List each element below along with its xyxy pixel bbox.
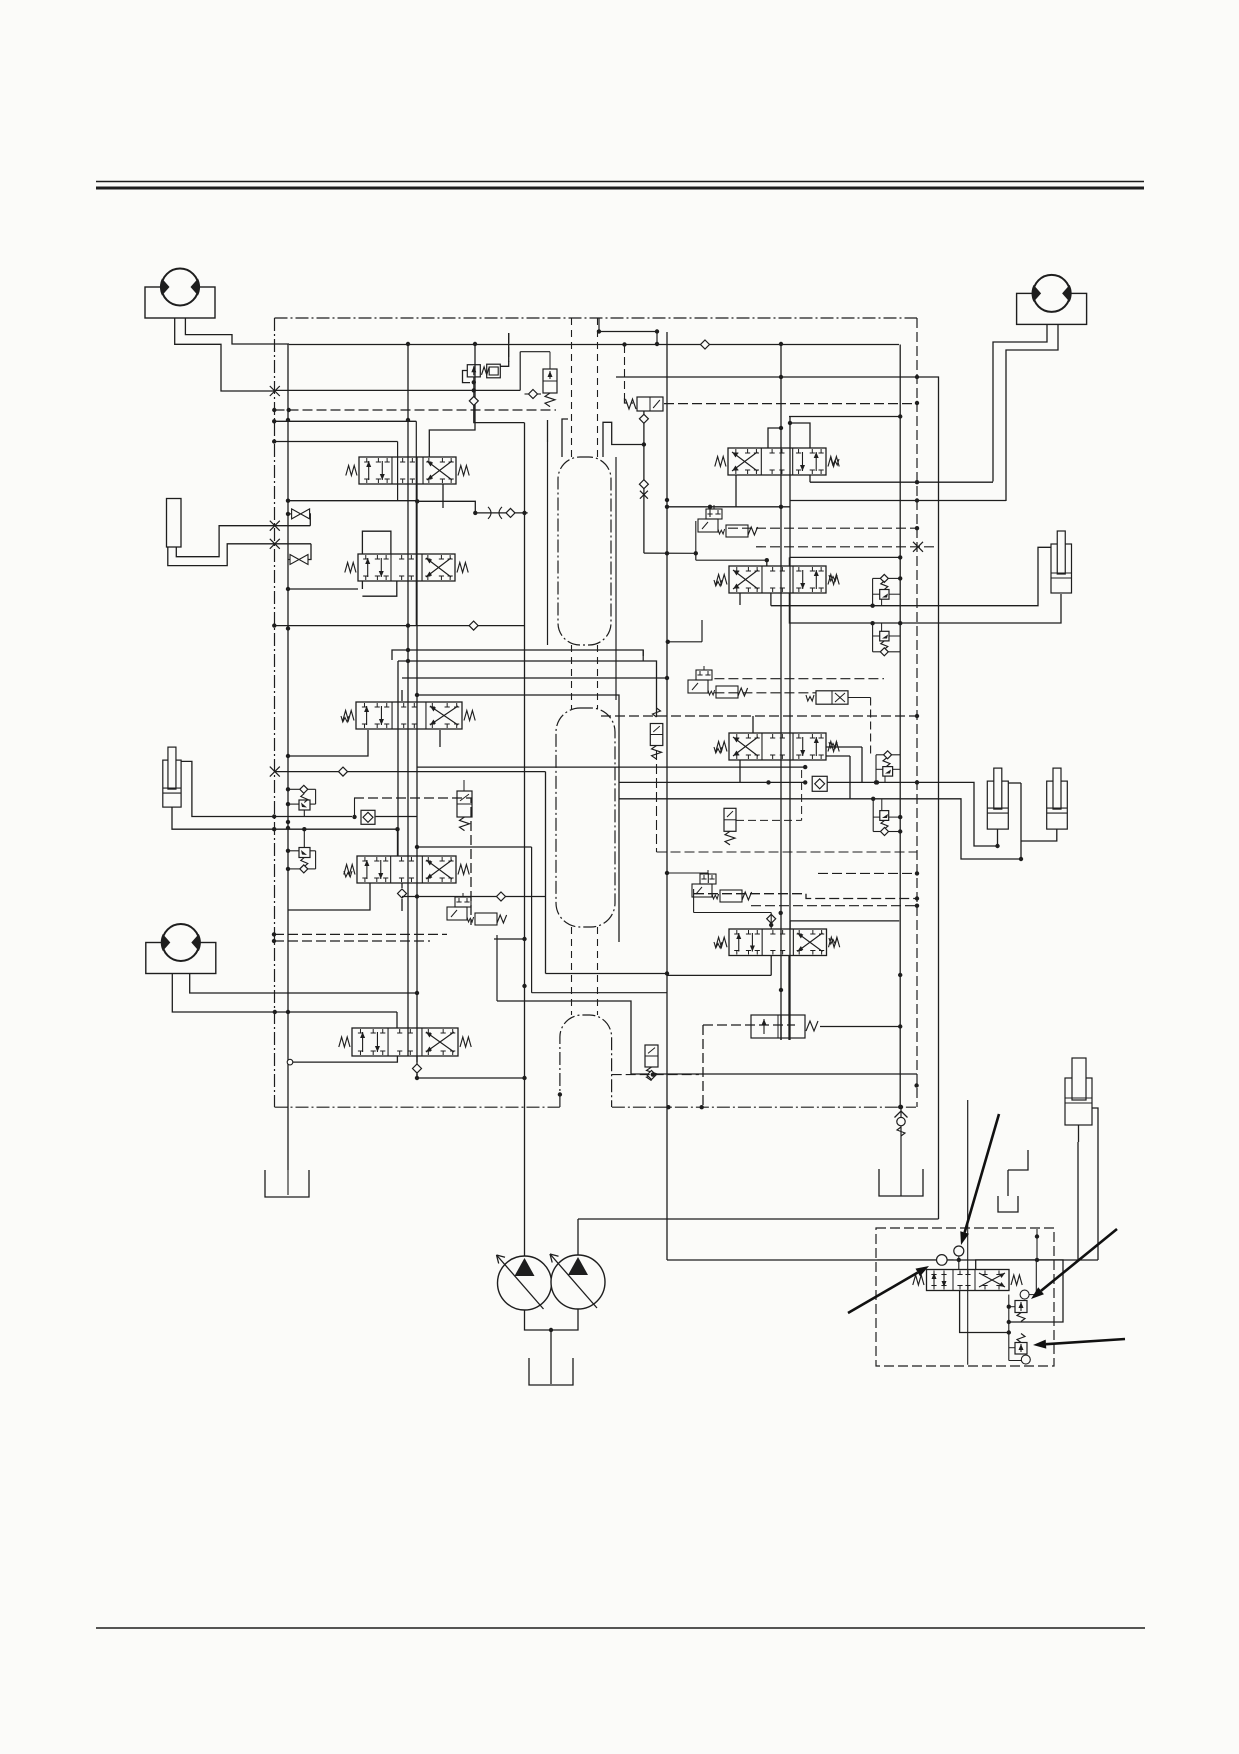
wire right bus x781 [780, 345, 782, 1040]
spring label V3 left [341, 716, 349, 722]
wire y771 with markers [275, 771, 546, 773]
pilot box through line [967, 1228, 969, 1365]
relief RV4 [872, 799, 874, 832]
spring label R4 left [714, 942, 722, 948]
wire y1078 pump feed [417, 1077, 525, 1079]
check square right [812, 776, 827, 791]
wire left bus x408 [407, 345, 409, 1057]
crossing wire y980 [497, 1001, 917, 1074]
control valve R4 (bucket) [729, 929, 827, 956]
pump line y1260 [668, 1259, 1098, 1261]
wire sv1 [525, 393, 529, 395]
hydraulic motor M2 top-right [1017, 293, 1087, 324]
wire right bus x666 [666, 332, 668, 1260]
solenoid SV3 [816, 691, 848, 704]
pilot control dashed box [876, 1228, 1054, 1366]
valve R1 wires [768, 428, 781, 448]
valve V3 wires [288, 730, 368, 756]
check diamond x533 [529, 390, 538, 399]
wire y331 top [599, 331, 657, 333]
dashed pilot y527 [728, 527, 917, 529]
wire y377 across [616, 376, 936, 378]
crossing wire y661 [398, 661, 657, 717]
block B1 wire [820, 1026, 900, 1028]
pilot assembly PA-R1 [706, 509, 722, 519]
wire cy4 [1077, 1142, 1079, 1260]
dashed pilot y932 [751, 905, 917, 907]
wire y421 [274, 420, 416, 422]
pcv relief chain [1008, 1295, 1010, 1361]
cylinder CL2 wires [181, 761, 352, 816]
control valve V3 (boom?) [356, 702, 462, 729]
wire right bus x790 [789, 416, 791, 1040]
dashed pilot y891 [694, 894, 917, 899]
wire y828 continue [376, 816, 417, 818]
dashed top right bank y403 [664, 403, 917, 405]
junction [286, 512, 290, 516]
relief RV1 [880, 574, 888, 582]
pilot assembly PA-R3 [700, 874, 716, 884]
relief RV6 pilot [1015, 1343, 1027, 1355]
marker X y525 [270, 521, 280, 531]
spring label R4 right [829, 938, 837, 944]
spring label V4 left [344, 871, 352, 877]
valve-bank boundary dash-dot box [275, 317, 918, 319]
wire y501 M2 [790, 500, 1006, 502]
control valve R1 (travel right) [728, 448, 826, 475]
wire x547 capsule left [547, 442, 549, 645]
junction [286, 820, 290, 824]
wire y391 [275, 389, 520, 391]
wire left bus x524 [524, 423, 526, 1256]
cylinder CY1 right [1051, 544, 1072, 593]
swivel joint neck lower [571, 927, 573, 1015]
wire x599 top [598, 318, 600, 332]
control valve R3 (arm) [729, 733, 826, 760]
wire y500 [288, 500, 417, 502]
callout arrow 4 [1046, 1339, 1125, 1344]
relief RV5 pilot [1015, 1301, 1027, 1313]
sv2 wires [643, 411, 645, 415]
junction [522, 937, 526, 941]
suction line [550, 1330, 552, 1384]
dashed pilot x508 [508, 333, 510, 362]
wire cy23 b [619, 798, 877, 800]
wire y416 right [789, 416, 900, 418]
spring label R3 right [829, 742, 837, 748]
pilot port ball 1 [937, 1255, 948, 1266]
crossing wire y939 [494, 938, 525, 940]
junction [272, 939, 276, 943]
dashed pilot y410 [275, 409, 557, 411]
wire y847 [417, 846, 532, 848]
pump P2 riser [577, 1219, 579, 1255]
wire x657 capstep [656, 332, 658, 346]
junction [665, 498, 669, 502]
dashed box right bottom [702, 1025, 704, 1105]
check valve square [361, 810, 375, 824]
swivel joint capsule upper [558, 457, 611, 645]
junction [286, 499, 290, 503]
right bank dashed border [916, 318, 918, 1107]
dashed svl1 down [656, 750, 658, 852]
block B1 relief [751, 1015, 805, 1038]
pcv feed line [877, 1259, 936, 1261]
solenoid SV4 [724, 808, 736, 831]
crossing wire y967 [546, 973, 669, 975]
pcv right port loop [976, 1260, 1063, 1322]
wire y641 stub [668, 641, 702, 643]
tank T3 small [998, 1196, 1018, 1212]
cylinder CY4 bottom right [1065, 1078, 1092, 1125]
wire right bus x900 [899, 345, 901, 1108]
pilot assembly PA-L [455, 897, 471, 907]
valve V5 wires [396, 1012, 398, 1028]
spring label R2 right [829, 575, 837, 581]
callout arrow 2 [848, 1273, 918, 1313]
bottom rule [96, 1627, 1145, 1629]
crossing wire y678 [402, 677, 668, 679]
control valve V2 (travel 2nd) [358, 554, 455, 581]
check valve vertical x901 [900, 1107, 902, 1196]
wire cy23 d [1020, 783, 1022, 859]
relief assembly top [467, 365, 480, 377]
junction [286, 418, 290, 422]
valve V1 wires [274, 441, 397, 443]
solenoid relief mid [457, 791, 472, 817]
junction [273, 1010, 277, 1014]
marker X boundary y771 [270, 767, 280, 777]
pump supply line y1219 [578, 1218, 939, 1220]
valve R3 wires [752, 716, 754, 733]
swivel joint capsule middle [556, 708, 615, 927]
junction [915, 401, 919, 405]
junction [406, 418, 410, 422]
dashed y546 section [756, 546, 936, 548]
pump outlet join [525, 1309, 579, 1330]
hydraulic motor M1 top-left [145, 287, 215, 318]
control valve V1 (travel left) [359, 457, 456, 484]
wire x668 low [667, 1259, 668, 1261]
junction [286, 1010, 290, 1014]
wire x966 [967, 1100, 969, 1228]
relief RV2 [881, 623, 883, 631]
marker X boundary y391 [270, 386, 280, 396]
small valve SVL1 [650, 724, 663, 746]
junction [655, 342, 659, 346]
dashed pilot left bank1 [354, 798, 471, 925]
dashed svl2 [612, 1074, 699, 1076]
junction [406, 342, 410, 346]
callout arrow 1 [965, 1114, 999, 1233]
junction [788, 421, 792, 425]
spring label R3 left [714, 747, 722, 753]
pcv bottom port [960, 1291, 1009, 1333]
tank T1 bottom-left [265, 1170, 309, 1197]
callout arrow 3 [1041, 1229, 1117, 1291]
pcv x1037 entry [1036, 1229, 1038, 1260]
wire y506 right [667, 506, 790, 508]
junction [779, 342, 783, 346]
orifice with check y509 [417, 501, 528, 513]
junction [473, 342, 477, 346]
control valve V4 (swing) [357, 856, 456, 883]
wire x616 capsule right [615, 457, 617, 700]
tank T4 pumps [529, 1358, 573, 1385]
wire left bus x288 [287, 344, 289, 1170]
crossing wire y695 [417, 695, 619, 942]
junction [286, 826, 290, 830]
pilot port ball 2 [954, 1246, 964, 1256]
junction [286, 754, 290, 758]
wire cy23 c [997, 829, 999, 847]
junction [898, 1105, 902, 1109]
junction [779, 988, 783, 992]
wire main top y344 [289, 344, 899, 346]
junction [898, 973, 902, 977]
junction [406, 659, 410, 663]
junction [415, 991, 419, 995]
check diamond y400 [469, 396, 478, 405]
motor M2 wires [993, 324, 1047, 481]
motor M1 wires [175, 318, 275, 391]
marker X y543 [270, 539, 280, 549]
cylinder CY3 [1047, 781, 1068, 829]
dashed pilot M3 lines [274, 933, 447, 935]
valve V4 wires [401, 883, 403, 888]
junction [406, 648, 410, 652]
junction [665, 676, 669, 680]
top rule upper line [96, 181, 1144, 183]
small valve SVL2 [645, 1045, 658, 1067]
wire y589 [288, 588, 358, 590]
relief RV3 [884, 751, 892, 759]
spring label R2 left [714, 580, 722, 586]
shut-off valve upper [292, 509, 310, 519]
cylinder CY2 [987, 781, 1008, 829]
wire x645 crossing [642, 650, 644, 661]
junction [779, 426, 783, 430]
junction [665, 971, 669, 975]
hydraulic motor M3 left-mid [146, 943, 216, 974]
junction [415, 693, 419, 697]
relief valve pair left upper [299, 800, 310, 810]
solenoid valve SV2 [637, 397, 663, 411]
wire y767 [417, 766, 805, 768]
control valve V5 (dozer) [352, 1028, 458, 1056]
wire left bus x417 [416, 457, 418, 1078]
pilot control valve PCV [927, 1270, 1010, 1291]
junction [272, 932, 276, 936]
dashed pilot y691 [714, 692, 816, 694]
swivel joint capsule lower [560, 1015, 612, 1107]
swivel joint neck upper [571, 645, 573, 709]
wire x398 mid [397, 661, 399, 856]
junction [522, 984, 526, 988]
control valve R2 (boom) [729, 566, 826, 593]
solenoid valve SV1 [543, 369, 557, 393]
valve V2 wires [361, 581, 363, 589]
tank T2 [879, 1169, 923, 1196]
motor M3 wires [172, 974, 397, 1012]
shut-off valve lower [290, 555, 308, 565]
wire cyl1 bottom [789, 593, 1061, 623]
wire y896 [402, 896, 546, 898]
variable pump P2 [551, 1255, 605, 1309]
wire cyl1 top [771, 547, 1051, 605]
wire x936 right outer [936, 377, 939, 1219]
wire y625 [274, 625, 524, 627]
check diamond x769 [767, 914, 776, 923]
dashed pilot y716 [601, 715, 917, 717]
spring label R1 right [831, 459, 839, 465]
crossing wire y650 [392, 650, 643, 660]
cylinder left CL2 [163, 760, 181, 807]
reservoir block left [167, 499, 182, 548]
variable pump P1 [498, 1256, 552, 1310]
capsule top port step [547, 420, 549, 442]
wire cy23 a [619, 781, 805, 783]
pilot assembly PA-R2 [696, 670, 712, 680]
valve R2 wires [766, 560, 768, 566]
reservoir block wires [176, 526, 310, 557]
valve R4 wires [770, 956, 772, 976]
junction [286, 587, 290, 591]
top rule lower line [96, 187, 1144, 190]
swivel neck top [571, 318, 573, 457]
junction [286, 626, 290, 630]
relief valve pair left lower [299, 848, 310, 858]
wire y481 M2 [810, 481, 993, 483]
